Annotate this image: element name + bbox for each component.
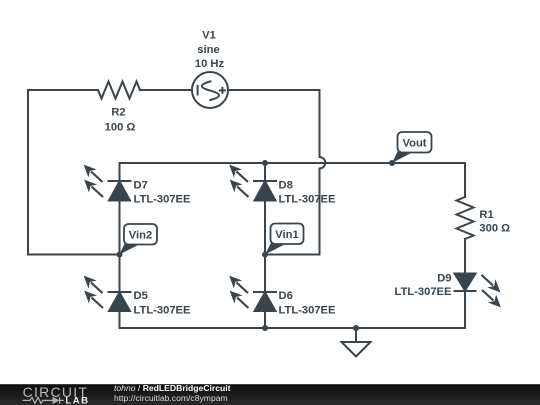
footer bar bbox=[0, 384, 540, 405]
wire D8 anode lead bbox=[264, 201, 266, 255]
svg-text:V1: V1 bbox=[202, 30, 216, 42]
wire top-left horizontal bbox=[28, 89, 98, 91]
svg-text:D8: D8 bbox=[279, 179, 293, 191]
logo resistor-diode squiggle bbox=[23, 397, 64, 403]
svg-text:tohno / RedLEDBridgeCircuit: tohno / RedLEDBridgeCircuit bbox=[114, 383, 231, 393]
svg-text:100 Ω: 100 Ω bbox=[105, 122, 136, 134]
wire D7 anode lead bbox=[119, 201, 121, 255]
flag Vin1 bbox=[265, 224, 304, 255]
LED arrows D5 bbox=[85, 277, 104, 309]
svg-text:LTL-307EE: LTL-307EE bbox=[395, 286, 453, 298]
diode D8 bbox=[253, 181, 277, 201]
wire top rail (Vout net) bbox=[120, 162, 466, 164]
svg-text:D9: D9 bbox=[437, 273, 451, 285]
svg-text:300 Ω: 300 Ω bbox=[479, 223, 510, 235]
diode D6 bbox=[253, 292, 277, 311]
svg-text:D5: D5 bbox=[134, 290, 148, 302]
diode D7 bbox=[108, 181, 132, 201]
junction node Vin1 bbox=[262, 252, 268, 258]
wire to node Vin1 bbox=[265, 254, 320, 256]
wire D5 anode lead bbox=[119, 311, 121, 328]
junction node D6-bottom bbox=[262, 325, 268, 331]
wire R1 to D9 bbox=[464, 239, 466, 274]
LED arrows D6 bbox=[230, 277, 249, 309]
wire to node Vin2 bbox=[28, 254, 120, 256]
svg-text:Vin1: Vin1 bbox=[275, 229, 298, 241]
ground bbox=[342, 328, 371, 357]
resistor R2 bbox=[98, 82, 140, 99]
svg-text:Vin2: Vin2 bbox=[129, 230, 152, 242]
junction node Vout bbox=[389, 160, 395, 166]
wire vertical with hop over Vout rail bbox=[320, 90, 326, 255]
flag Vout bbox=[392, 132, 432, 163]
svg-text:LAB: LAB bbox=[65, 396, 89, 405]
wire left vertical bbox=[27, 90, 29, 255]
svg-text:10 Hz: 10 Hz bbox=[195, 58, 225, 70]
diode D5 bbox=[108, 292, 132, 311]
wire D7 cathode lead bbox=[119, 163, 121, 181]
LED arrows D8 bbox=[230, 166, 249, 198]
wire R2 to V1 bbox=[140, 89, 192, 91]
diode D9 bbox=[454, 274, 477, 292]
svg-text:R2: R2 bbox=[111, 107, 125, 119]
wire bottom rail (ground net) bbox=[120, 327, 466, 329]
svg-text:Vout: Vout bbox=[402, 138, 426, 150]
svg-text:D6: D6 bbox=[279, 290, 293, 302]
wire D8 cathode lead bbox=[264, 163, 266, 181]
wire D5 cathode lead bbox=[119, 255, 121, 293]
LED arrows D7 bbox=[85, 166, 104, 198]
wire D6 anode lead bbox=[264, 311, 266, 328]
svg-text:sine: sine bbox=[197, 44, 219, 56]
svg-text:D7: D7 bbox=[134, 179, 148, 191]
junction node ground bbox=[353, 325, 359, 331]
svg-text:LTL-307EE: LTL-307EE bbox=[279, 194, 337, 206]
resistor R1 bbox=[457, 197, 474, 239]
junction node D8-top bbox=[262, 160, 268, 166]
svg-text:LTL-307EE: LTL-307EE bbox=[134, 305, 192, 317]
wire D6 cathode lead bbox=[264, 255, 266, 293]
svg-text:http://circuitlab.com/c8ympam: http://circuitlab.com/c8ympam bbox=[114, 393, 228, 403]
svg-text:R1: R1 bbox=[479, 209, 493, 221]
wire D9 cathode lead bbox=[464, 291, 466, 328]
flag Vin2 bbox=[120, 224, 158, 255]
junction node Vin2 bbox=[117, 252, 123, 258]
source V1 bbox=[192, 72, 228, 108]
svg-text:LTL-307EE: LTL-307EE bbox=[134, 194, 192, 206]
svg-text:LTL-307EE: LTL-307EE bbox=[279, 305, 337, 317]
LED arrows D9 bbox=[482, 275, 501, 307]
wire R1 top lead bbox=[464, 163, 466, 197]
wire V1 to top-right corner bbox=[228, 89, 320, 91]
